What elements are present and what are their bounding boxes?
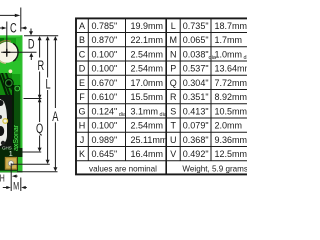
svg-text:R: R (170, 92, 177, 102)
D upper arrow tail (30, 29, 32, 32)
dim line A (upper segment) (54, 39, 56, 108)
svg-text:0.368": 0.368" (183, 135, 209, 145)
svg-text:0.304": 0.304" (183, 78, 209, 88)
svg-text:N: N (170, 49, 177, 59)
dim line L (lower segment) (47, 90, 49, 161)
svg-text:Q: Q (36, 120, 43, 137)
svg-text:S: S (170, 106, 176, 116)
svg-text:D: D (79, 64, 86, 74)
column lines (87, 18, 89, 161)
svg-text:7.72mm: 7.72mm (215, 78, 248, 88)
col mm A-K (131, 21, 168, 159)
svg-text:M: M (169, 35, 177, 45)
svg-text:values are nominal: values are nominal (89, 165, 157, 174)
svg-text:0.735": 0.735" (183, 21, 209, 31)
svg-text:1.0mm dia: 1.0mm dia (215, 49, 248, 61)
svg-text:12.5mm: 12.5mm (215, 149, 248, 159)
arrow M left (points right) (6, 186, 11, 189)
arrow D up (29, 53, 33, 57)
svg-text:19.9mm: 19.9mm (131, 21, 164, 31)
svg-text:D: D (28, 35, 35, 52)
svg-text:P: P (170, 64, 176, 74)
svg-text:1: 1 (9, 149, 13, 158)
col inches L-V (183, 21, 217, 159)
svg-text:A: A (52, 108, 58, 125)
dim line C left tail (0, 27, 3, 29)
svg-text:R: R (37, 57, 44, 74)
fiducial: small yellow dot (9, 69, 13, 73)
col L-V letters (169, 21, 177, 159)
svg-text:13.64mm: 13.64mm (215, 64, 248, 74)
svg-text:Weight, 5.9 grams: Weight, 5.9 grams (182, 165, 247, 174)
svg-text:0.413": 0.413" (183, 106, 209, 116)
arrow C left (points right) (2, 26, 7, 29)
svg-text:0.100": 0.100" (92, 121, 118, 131)
svg-text:0.610": 0.610" (92, 92, 118, 102)
H arrow tail (14, 175, 18, 177)
table text (78, 21, 252, 174)
svg-text:H: H (79, 121, 86, 131)
extension line: pad hole center ref (11, 163, 50, 165)
dim line A (lower segment) (54, 122, 56, 168)
col A-K letters (78, 21, 85, 159)
svg-text:10.5mm: 10.5mm (215, 106, 248, 116)
svg-text:L: L (46, 76, 51, 93)
arrow H (points left) (12, 175, 17, 178)
svg-text:1.7mm: 1.7mm (215, 35, 243, 45)
svg-text:2.54mm: 2.54mm (131, 64, 164, 74)
table outer frame (76, 18, 256, 174)
svg-text:0.989": 0.989" (92, 135, 118, 145)
svg-text:axSonar: axSonar (13, 124, 20, 151)
svg-text:0.038"dia: 0.038"dia (183, 49, 217, 61)
extension line: pin top ref (22, 151, 42, 153)
arrowheads (2, 14, 58, 189)
arrow A bottom (down) (53, 167, 57, 171)
svg-text:0.537": 0.537" (183, 64, 209, 74)
arrow D down (29, 31, 33, 35)
svg-text:0.785": 0.785" (92, 21, 118, 31)
svg-text:2.54mm: 2.54mm (131, 121, 164, 131)
svg-text:Q: Q (170, 78, 177, 88)
svg-text:0.351": 0.351" (183, 92, 209, 102)
component: dark round inductor with ring (4, 78, 14, 88)
dim line B (top, cut at left) (0, 14, 18, 16)
arrow R bottom / Q top (x pair) (38, 95, 42, 100)
dim line L (upper segment) (47, 39, 49, 78)
svg-text:0.492": 0.492" (183, 149, 209, 159)
pcb board body (0, 35, 23, 172)
col mm L-V (215, 21, 253, 159)
svg-text:0.645": 0.645" (92, 149, 118, 159)
col inches A-K (92, 21, 128, 159)
svg-text:16.4mm: 16.4mm (131, 149, 164, 159)
component: white transducer blob (0, 99, 12, 151)
svg-text:0.670": 0.670" (92, 78, 118, 88)
arrow Q bottom (down) (38, 148, 42, 152)
dimension labels (0, 19, 58, 192)
svg-text:0.079": 0.079" (183, 121, 209, 131)
svg-text:8.92mm: 8.92mm (215, 92, 248, 102)
svg-text:F: F (79, 92, 85, 102)
pin pad: gold square with hole (5, 157, 17, 170)
extension line: board bottom edge extended right (17, 171, 58, 173)
svg-text:2.0mm: 2.0mm (215, 121, 243, 131)
fiducial: yellow ring on blob (3, 119, 8, 124)
svg-text:H: H (0, 172, 5, 184)
extension line: hole centerline vertical (6, 22, 8, 58)
svg-text:0.100": 0.100" (92, 49, 118, 59)
svg-text:17.0mm: 17.0mm (131, 78, 164, 88)
svg-text:U: U (170, 135, 177, 145)
svg-text:T: T (170, 121, 176, 131)
dim line Q (upper segment) (39, 101, 41, 122)
svg-text:C: C (79, 49, 86, 59)
svg-text:M: M (13, 180, 19, 192)
svg-text:E: E (79, 78, 85, 88)
dim line R (lower segment) (39, 72, 41, 97)
svg-text:3.1mm dia: 3.1mm dia (131, 106, 168, 118)
extension line: pad hole centerline vertical (10, 163, 12, 191)
svg-text:C: C (10, 19, 17, 36)
svg-text:15.5mm: 15.5mm (131, 92, 164, 102)
svg-text:G: G (78, 106, 85, 116)
svg-text:22.1mm: 22.1mm (131, 35, 164, 45)
arrow B right (15, 14, 21, 17)
dim line C right tail (21, 27, 27, 29)
arrow R top (up) (38, 36, 42, 40)
dark traces and patches (0, 73, 23, 172)
M left arrow tail (3, 187, 7, 189)
extension line: hole center horizontal (crosshair) (1, 51, 36, 53)
svg-text:V: V (170, 149, 176, 159)
dim line R (upper segment) (39, 39, 41, 58)
mounting hole (big cream circle) (0, 41, 18, 64)
M right arrow tail (24, 187, 27, 189)
arrow L top (up) (46, 36, 50, 40)
svg-text:0.065": 0.065" (183, 35, 209, 45)
extension line: board right edge (bottom) (20, 178, 22, 192)
svg-text:K: K (79, 149, 85, 159)
D lower arrow tail (30, 57, 32, 61)
extension line: board top edge extended right (24, 35, 58, 37)
table grid (75, 18, 256, 175)
svg-text:25.11mm: 25.11mm (131, 135, 168, 145)
extension line: board right edge (top) (20, 8, 22, 32)
svg-text:0.124" dia: 0.124" dia (92, 106, 128, 118)
arrow M right (points left) (21, 186, 26, 189)
svg-text:J: J (80, 135, 85, 145)
row lines (75, 32, 247, 34)
extension line: transducer base ref (24, 98, 42, 100)
svg-text:L: L (171, 21, 176, 31)
arrow A top (up) (53, 36, 57, 40)
svg-text:0.100": 0.100" (92, 64, 118, 74)
arrow C right (points left) (21, 26, 26, 29)
svg-text:9.36mm: 9.36mm (215, 135, 248, 145)
svg-text:A: A (79, 21, 85, 31)
silk registered mark (15, 86, 20, 91)
svg-text:2.54mm: 2.54mm (131, 49, 164, 59)
svg-text:0.870": 0.870" (92, 35, 118, 45)
hole center cross (bold) (3, 49, 10, 56)
dim line Q (lower segment) (39, 136, 41, 150)
svg-text:18.7mm: 18.7mm (215, 21, 248, 31)
svg-text:B: B (79, 35, 85, 45)
arrow L bottom (down) (46, 160, 50, 164)
